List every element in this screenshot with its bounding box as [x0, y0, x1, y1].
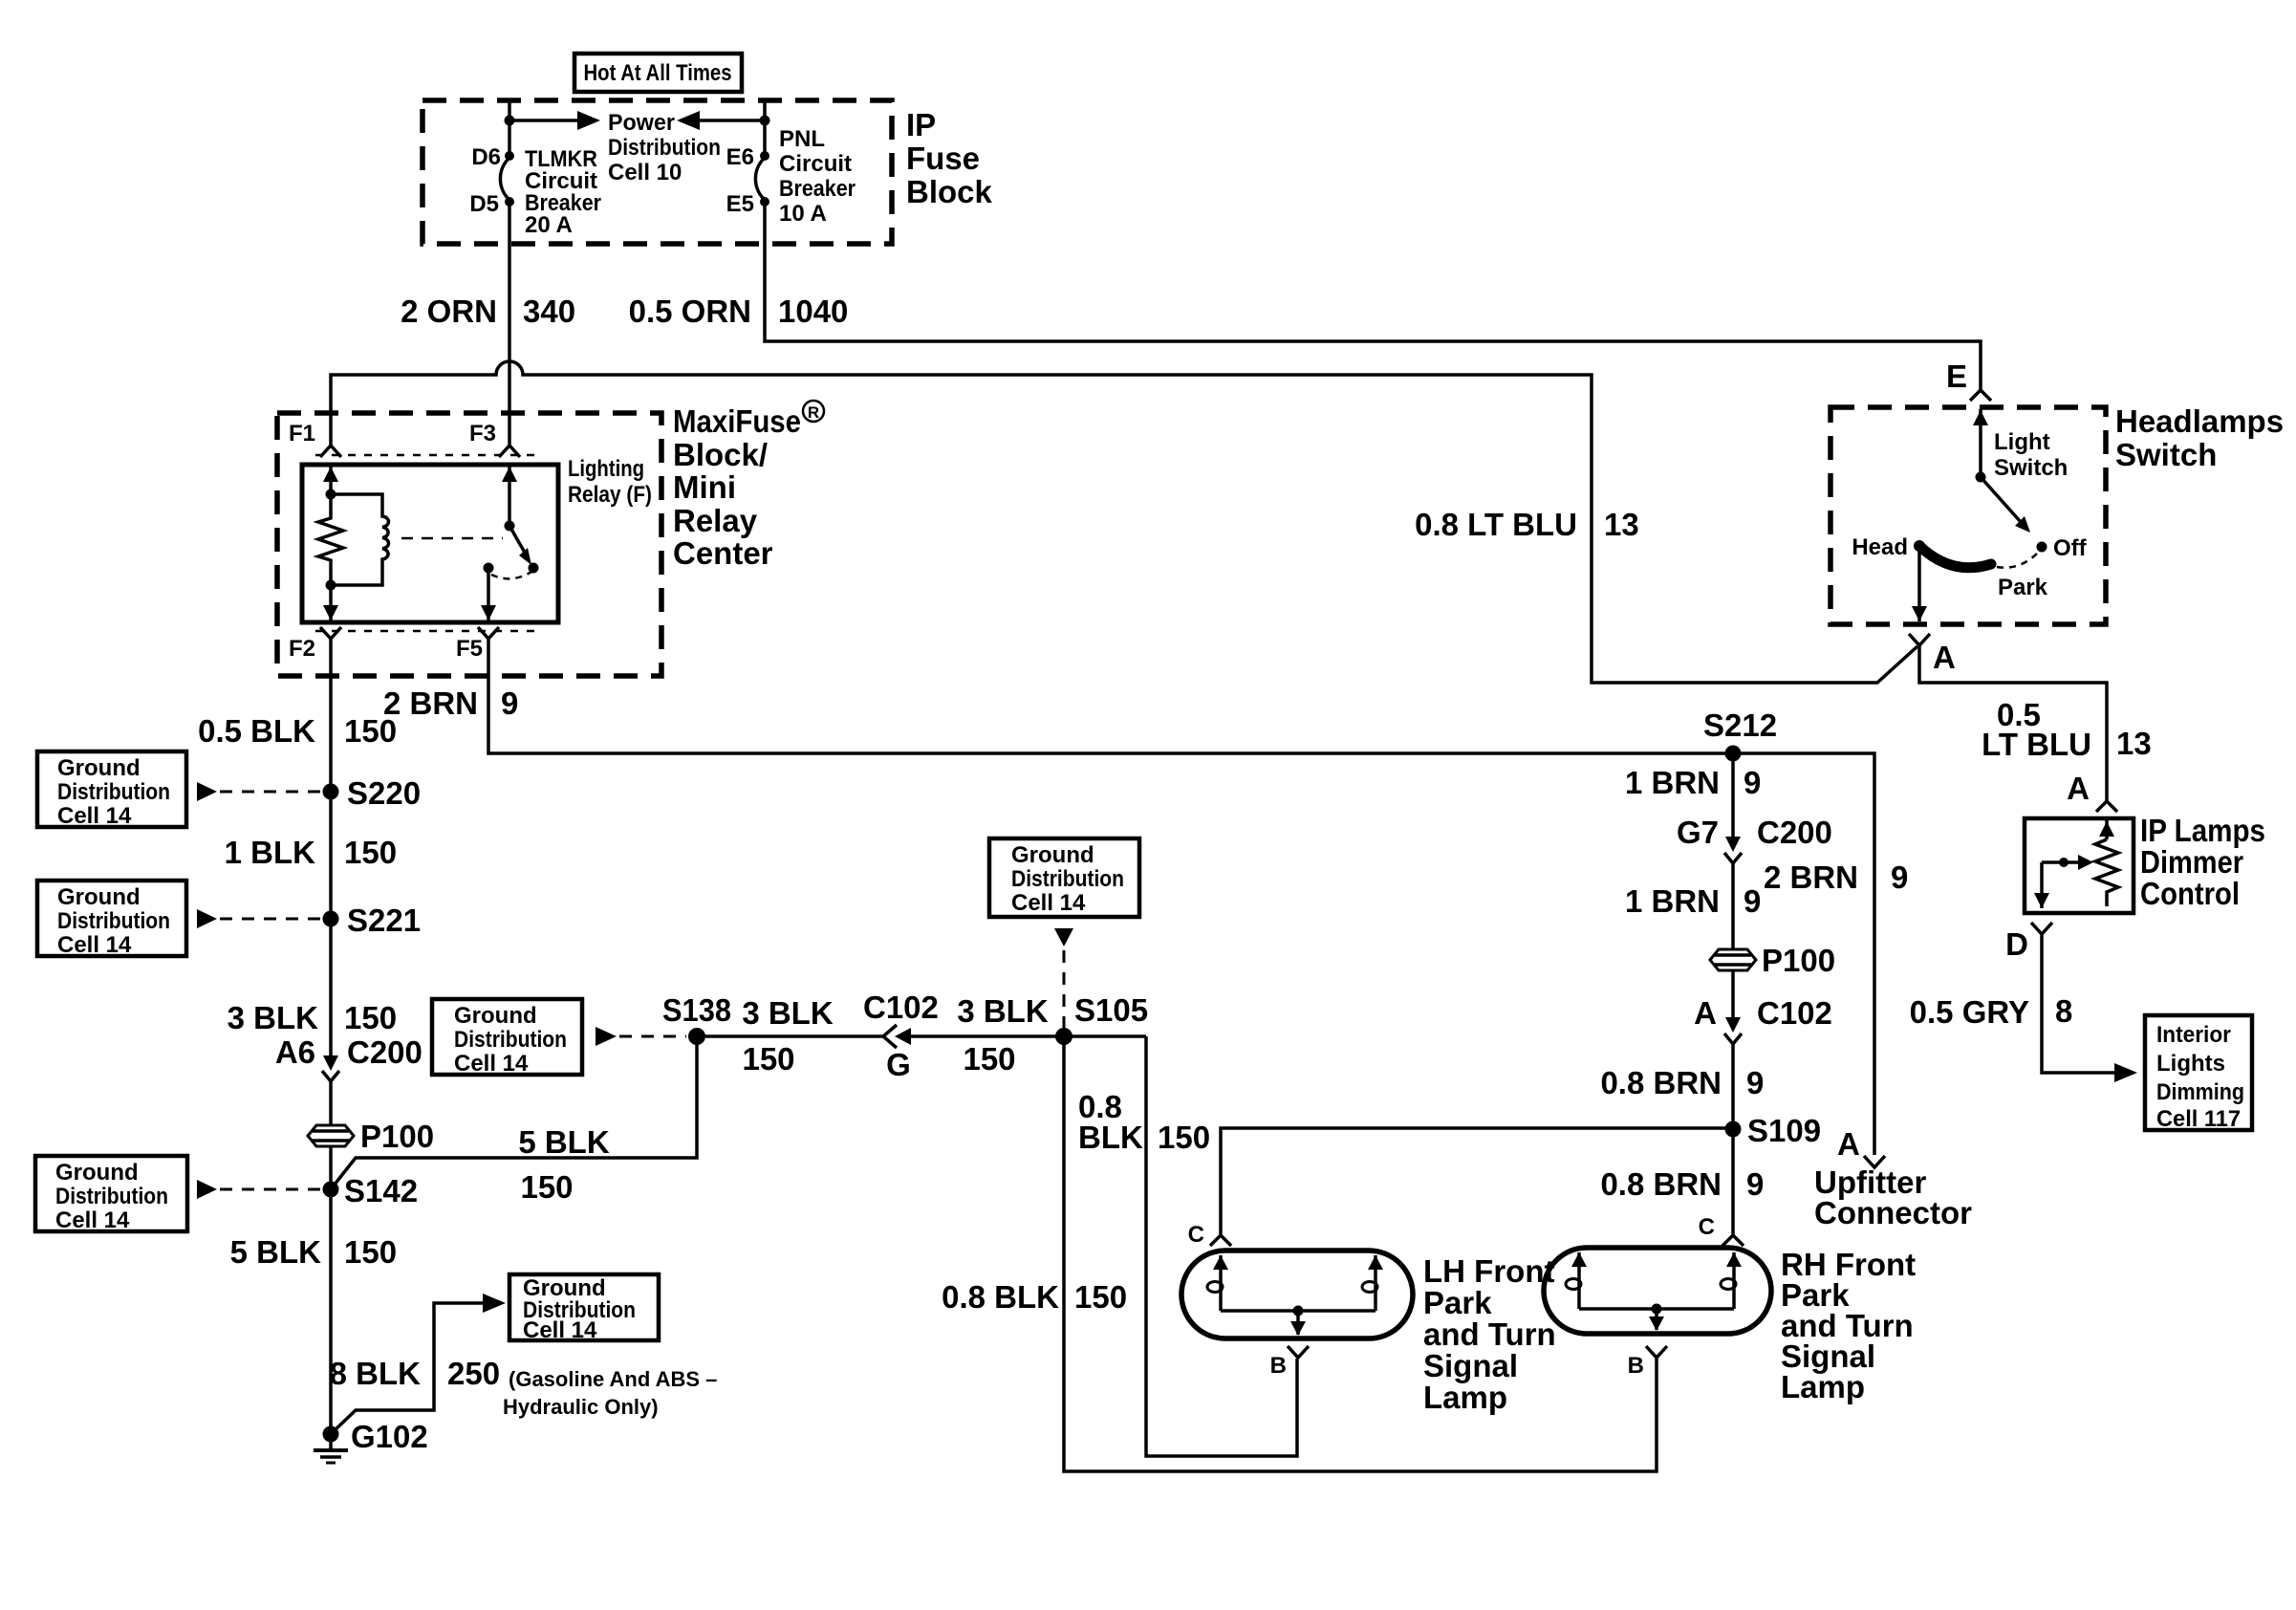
label: 2 BRN | 9 (upfitter wire) [1764, 859, 1908, 895]
node: junction dot on 340 feed [505, 116, 515, 126]
RH lamp terminal C chevron [1699, 1214, 1744, 1246]
svg-text:and Turn: and Turn [1423, 1316, 1556, 1352]
svg-text:3 BLK: 3 BLK [957, 993, 1049, 1029]
label: MaxiFuse (R) Block/ Mini Relay Center [673, 401, 824, 571]
svg-text:9: 9 [1746, 1065, 1764, 1100]
svg-text:Ground: Ground [57, 755, 141, 781]
svg-text:150: 150 [520, 1169, 573, 1205]
svg-text:A: A [1837, 1126, 1860, 1162]
svg-text:B: B [1270, 1353, 1287, 1379]
wiper heavy arc (Head position) [1919, 546, 1991, 568]
svg-text:Cell 14: Cell 14 [1011, 890, 1086, 916]
wire: 3 BLK 150 from C102 to S105 and branch corner [911, 1034, 1146, 1038]
node: junction dot on PNL feed [760, 116, 770, 126]
svg-text:Park: Park [1998, 575, 2048, 600]
svg-text:8: 8 [2055, 993, 2072, 1029]
svg-text:0.8 LT BLU: 0.8 LT BLU [1415, 507, 1577, 542]
svg-text:Hydraulic Only): Hydraulic Only) [503, 1395, 659, 1419]
label: 2 BRN | 9 (at F5) [383, 685, 518, 721]
splice S138 [662, 992, 731, 1045]
svg-text:LT BLU: LT BLU [1982, 727, 2091, 762]
label: 8 BLK | 250 (Gasoline And ABS - Hydraulic Only) [330, 1356, 718, 1419]
svg-text:D6: D6 [471, 144, 501, 170]
svg-text:Circuit: Circuit [779, 151, 852, 177]
svg-text:10 A: 10 A [779, 201, 827, 227]
label: Upfitter Connector [1814, 1164, 1972, 1230]
svg-text:Ground: Ground [57, 884, 141, 910]
label: IP Fuse Block [906, 107, 993, 209]
svg-text:R: R [808, 403, 819, 422]
svg-text:8 BLK: 8 BLK [330, 1356, 422, 1391]
svg-text:Lighting: Lighting [568, 456, 644, 482]
svg-text:150: 150 [344, 713, 397, 749]
wire: 0.8 BLK 150 S105 straight down to RH lamp B return [1064, 1036, 1657, 1471]
relay pin arrow F1 (up) [323, 466, 338, 494]
svg-text:Cell 14: Cell 14 [57, 932, 132, 958]
wire: 0.5 LT BLU 13 from A to dimmer [1919, 645, 2107, 801]
LH lamp filament rail [1221, 1309, 1375, 1313]
svg-text:Switch: Switch [1994, 455, 2068, 481]
splice S142 [323, 1173, 419, 1208]
resistor (relay) [318, 494, 343, 585]
svg-text:150: 150 [963, 1041, 1015, 1077]
wire: 340 feed from fuse block top to D6 [508, 100, 511, 156]
label: 0.8 BLK | 150 (lower) [942, 1279, 1127, 1315]
grommet P100 (left) [308, 1119, 434, 1154]
relay pin arrow F2 (down) [323, 585, 338, 621]
LH lamp terminal C chevron [1188, 1222, 1231, 1248]
svg-text:9: 9 [1746, 1166, 1764, 1202]
svg-text:E5: E5 [726, 191, 754, 217]
svg-text:Mini: Mini [673, 469, 736, 505]
svg-text:0.5 ORN: 0.5 ORN [629, 294, 751, 329]
label: 3 BLK | 150 [227, 1000, 397, 1035]
svg-text:Block: Block [906, 174, 993, 209]
svg-text:Switch: Switch [2115, 437, 2217, 472]
wire: 3 BLK 150 from S138 to C102 [697, 1034, 883, 1038]
svg-text:Fuse: Fuse [906, 141, 980, 176]
svg-text:Relay: Relay [673, 503, 758, 538]
wire: C200 down to P100 [1731, 863, 1735, 1020]
label: 0.5 ORN | 1040 [629, 294, 849, 329]
label: 0.5 / LT BLU | 13 [1982, 697, 2152, 762]
label: PNL Circuit Breaker 10 A [779, 126, 856, 227]
svg-text:150: 150 [344, 1234, 397, 1270]
svg-text:F3: F3 [469, 421, 496, 446]
LH Front Park and Turn Signal Lamp (stadium) [1181, 1251, 1413, 1338]
svg-text:LH Front: LH Front [1423, 1253, 1554, 1289]
svg-text:Park: Park [1423, 1285, 1492, 1320]
label: 1 BRN | 9 (upper) [1625, 765, 1761, 800]
svg-text:B: B [1628, 1353, 1644, 1379]
svg-text:IP Lamps: IP Lamps [2140, 813, 2265, 848]
svg-text:Ground: Ground [55, 1160, 139, 1186]
svg-text:A: A [1933, 640, 1956, 675]
contact Off [2037, 535, 2088, 561]
svg-text:Cell 14: Cell 14 [57, 803, 132, 829]
svg-text:Center: Center [673, 535, 773, 571]
relay switch arm with arrowhead [509, 526, 539, 574]
relay pin arrow F3 (up) [502, 466, 517, 526]
svg-text:0.8 BLK: 0.8 BLK [942, 1279, 1059, 1315]
svg-text:G7: G7 [1677, 815, 1719, 850]
RH lamp common node [1652, 1304, 1662, 1315]
svg-text:C200: C200 [347, 1034, 422, 1070]
svg-text:Block/: Block/ [673, 437, 768, 472]
svg-text:S138: S138 [662, 992, 731, 1028]
circuit breaker PNL arc E6-E5 [755, 158, 765, 200]
svg-text:0.5 BLK: 0.5 BLK [198, 713, 315, 749]
pin F5 chevron [456, 627, 499, 662]
svg-text:Breaker: Breaker [779, 176, 856, 202]
RH lamp terminal B chevron [1628, 1346, 1667, 1379]
svg-text:3 BLK: 3 BLK [227, 1000, 319, 1035]
relay switch pivot [505, 521, 515, 532]
wire: arrow to Power Distribution (right) [677, 111, 765, 130]
wire: 0.5 GRY 8 from D to interior lights dimming [2042, 934, 2137, 1082]
svg-text:MaxiFuse: MaxiFuse [673, 403, 801, 439]
pin F2 chevron [289, 627, 341, 662]
svg-text:Light: Light [1994, 429, 2050, 455]
svg-text:G: G [886, 1047, 911, 1082]
svg-text:Headlamps: Headlamps [2115, 403, 2284, 439]
label: 0.5 BLK | 150 [198, 713, 397, 749]
svg-text:5 BLK: 5 BLK [230, 1234, 322, 1270]
RH lamp right filament [1721, 1252, 1742, 1309]
svg-text:Cell 14: Cell 14 [454, 1051, 529, 1077]
svg-text:Ground: Ground [454, 1003, 537, 1029]
svg-text:Head: Head [1852, 534, 1908, 560]
coil (relay) [331, 494, 389, 585]
label: LH Front Park and Turn Signal Lamp [1423, 1253, 1556, 1415]
wire: 0.5 ORN 1040 from E5 right and up to headlamp switch E [765, 202, 1981, 390]
relay pin arrow F5 (down) [481, 568, 496, 621]
svg-text:150: 150 [1074, 1279, 1127, 1315]
svg-text:PNL: PNL [779, 126, 825, 152]
svg-text:Cell 14: Cell 14 [523, 1317, 597, 1343]
svg-text:S109: S109 [1747, 1113, 1821, 1148]
label: Power Distribution Cell 10 [608, 110, 721, 185]
wire: 5 BLK 150 branch from S142 to S138 [331, 1036, 697, 1189]
splice S212 [1703, 707, 1777, 762]
label: Light Switch [1994, 429, 2068, 481]
svg-text:13: 13 [1604, 507, 1639, 542]
svg-text:1040: 1040 [778, 294, 848, 329]
ground distribution box (S105) [989, 838, 1139, 917]
pin D6 [471, 144, 514, 170]
label: 0.5 GRY | 8 [1910, 993, 2073, 1030]
switch terminal A chevron [1909, 634, 1956, 675]
LH lamp B pin arrow [1290, 1311, 1306, 1336]
relay coil branch node (bottom) [326, 580, 336, 591]
svg-text:Distribution: Distribution [608, 135, 721, 161]
svg-text:Relay (F): Relay (F) [568, 482, 652, 508]
ground G102 [314, 1419, 428, 1463]
wire: right column S212 down to C200 [1731, 753, 1735, 840]
svg-text:F2: F2 [289, 636, 315, 662]
svg-text:150: 150 [344, 835, 397, 870]
svg-text:Distribution: Distribution [57, 779, 170, 805]
LH lamp left filament [1207, 1255, 1228, 1311]
LH lamp terminal B chevron [1270, 1346, 1309, 1379]
svg-text:Power: Power [608, 110, 675, 136]
svg-text:2 BRN: 2 BRN [383, 685, 478, 721]
svg-text:1 BLK: 1 BLK [225, 835, 316, 870]
svg-text:Distribution: Distribution [1011, 866, 1124, 892]
contact Head [1852, 534, 1925, 560]
svg-text:150: 150 [344, 1000, 397, 1035]
dashed arrow to S220 [197, 782, 322, 801]
svg-text:Lights: Lights [2156, 1051, 2225, 1077]
connector C200 terminal A6 (inline arrow+chevron) [275, 1034, 422, 1081]
svg-text:Cell 10: Cell 10 [608, 160, 682, 185]
splice S109 [1725, 1113, 1822, 1148]
svg-text:Dimming: Dimming [2156, 1079, 2244, 1105]
svg-text:P100: P100 [360, 1119, 434, 1154]
svg-text:150: 150 [742, 1041, 794, 1077]
svg-text:20 A: 20 A [525, 212, 573, 238]
svg-text:Distribution: Distribution [55, 1184, 168, 1209]
svg-text:IP: IP [906, 107, 936, 142]
circuit breaker TLMKR arc D6-D5 [500, 158, 509, 200]
svg-text:Hot At All Times: Hot At All Times [584, 60, 732, 86]
connector C102 terminal A (inline arrow+chevron) [1694, 995, 1832, 1044]
ground distribution box (S221) [37, 881, 186, 958]
svg-text:E6: E6 [726, 144, 754, 170]
svg-text:Connector: Connector [1814, 1195, 1972, 1230]
dashed drop arrow from box to S105 [1054, 928, 1073, 1028]
pin F3 chevron [469, 421, 520, 457]
wire: 2 ORN 340 from D5 down to F3 terminal [508, 202, 511, 446]
svg-text:S221: S221 [347, 903, 421, 938]
svg-text:Distribution: Distribution [454, 1027, 567, 1053]
LH lamp common node [1293, 1306, 1304, 1316]
dimmer wiper arrow [2042, 855, 2093, 870]
IP Fuse Block dashed box [422, 100, 892, 244]
svg-text:Lamp: Lamp [1781, 1369, 1865, 1404]
label: 3 BLK / 150 (right of C102) [957, 993, 1049, 1077]
label: 5 BLK / 150 (branch) [518, 1124, 610, 1205]
svg-text:340: 340 [523, 294, 575, 329]
label: 1 BRN | 9 (lower) [1625, 883, 1761, 919]
light switch arm with arrowhead [1981, 477, 2030, 533]
Interior Lights Dimming Cell 117 box [2145, 1015, 2252, 1132]
svg-text:0.8 BRN: 0.8 BRN [1600, 1065, 1722, 1100]
relay common contact node [484, 563, 494, 574]
grommet P100 (right) [1710, 943, 1835, 978]
label box: Hot At All Times [574, 54, 742, 92]
svg-text:150: 150 [1158, 1120, 1210, 1155]
relay alternate contact (dashed arc) [491, 572, 531, 578]
svg-text:D: D [2005, 926, 2028, 962]
switch pin E arrow (up) [1973, 409, 1988, 477]
label: 0.8 / BLK | 150 (upper) [1078, 1089, 1210, 1155]
svg-text:A: A [2067, 771, 2090, 806]
label: 3 BLK / 150 (left of C102) [742, 995, 834, 1077]
pin E5 [726, 191, 769, 217]
wire: left ground chain from F2 down to G102 [329, 639, 333, 1434]
svg-text:C102: C102 [1757, 995, 1832, 1031]
svg-text:S105: S105 [1074, 992, 1148, 1028]
RH lamp B pin arrow [1649, 1309, 1664, 1331]
label: Lighting Relay (F) [568, 456, 652, 508]
wiper alternate dashed arc to Off [1997, 553, 2038, 568]
svg-text:5 BLK: 5 BLK [518, 1124, 610, 1160]
svg-text:A6: A6 [275, 1034, 315, 1070]
dimmer terminal A chevron [2067, 771, 2117, 812]
svg-text:F1: F1 [289, 421, 315, 446]
svg-text:Control: Control [2140, 876, 2240, 911]
svg-text:1 BRN: 1 BRN [1625, 883, 1720, 919]
svg-text:C102: C102 [863, 990, 939, 1025]
IP Lamps Dimmer Control box [2025, 818, 2134, 913]
svg-text:S142: S142 [344, 1173, 418, 1208]
wire: PNL feed from fuse block top to E6 [763, 100, 767, 156]
ground distribution box (S220) [37, 751, 186, 829]
ground distribution box (G102 branch) [509, 1274, 659, 1343]
svg-text:S220: S220 [347, 775, 421, 811]
svg-text:BLK: BLK [1078, 1120, 1143, 1155]
pin F1 chevron [289, 421, 341, 457]
RH Front Park and Turn Signal Lamp (stadium) [1544, 1248, 1771, 1334]
switch pin A arrow (down) from Head [1912, 546, 1927, 621]
relay mechanical linkage (dashed) [401, 537, 503, 540]
MaxiFuse Block dashed box [277, 413, 661, 676]
svg-text:Cell 117: Cell 117 [2156, 1106, 2241, 1132]
svg-text:9: 9 [1891, 859, 1908, 895]
svg-text:G102: G102 [351, 1419, 428, 1454]
splice S221 [323, 903, 422, 938]
svg-text:9: 9 [501, 685, 518, 721]
wire: 0.8 BRN 150 from LH lamp C up and right to S109 [1221, 1128, 1733, 1235]
svg-text:E: E [1946, 359, 1967, 394]
dashed arrow to S221 [197, 909, 322, 928]
wire: 0.8 LT BLU 13 from relay F1 to headlamp switch A (with hop over 340) [331, 361, 1917, 683]
RH lamp filament rail [1579, 1307, 1734, 1311]
svg-text:Lamp: Lamp [1423, 1380, 1507, 1415]
ground distribution box (S138) [432, 999, 582, 1077]
RH lamp left filament [1566, 1252, 1587, 1309]
svg-text:9: 9 [1744, 765, 1761, 800]
upfitter connector terminal A chevron [1837, 1126, 1885, 1167]
wire: 0.8 BLK 150 S105 right branch down to LH lamp B return [1146, 1036, 1297, 1456]
svg-text:9: 9 [1744, 883, 1761, 919]
svg-text:D5: D5 [469, 191, 499, 217]
svg-text:Dimmer: Dimmer [2140, 844, 2243, 880]
relay coil branch node (top) [326, 490, 336, 500]
svg-text:C200: C200 [1757, 815, 1832, 850]
label: 2 ORN | 340 [401, 294, 575, 329]
label: IP Lamps Dimmer Control [2140, 813, 2265, 911]
svg-text:3 BLK: 3 BLK [742, 995, 834, 1031]
label: TLMKR Circuit Breaker 20 A [525, 146, 601, 238]
svg-text:Ground: Ground [1011, 842, 1094, 868]
svg-text:2 ORN: 2 ORN [401, 294, 497, 329]
wire: C102 down to S109 [1731, 1044, 1735, 1235]
ground distribution box (S142) [35, 1156, 187, 1233]
light switch pivot [1976, 472, 1986, 483]
label: 0.8 BRN | 9 (below S109) [1600, 1166, 1764, 1202]
svg-text:P100: P100 [1762, 943, 1835, 978]
label: Headlamps Switch [2115, 403, 2284, 472]
connector C200 terminal G7 (inline arrow+chevron) [1677, 815, 1832, 863]
relay box: Lighting Relay (F) [302, 465, 558, 622]
svg-text:2 BRN: 2 BRN [1764, 859, 1858, 895]
connector face dashed line (bottom of relay) [315, 630, 535, 633]
svg-text:250: 250 [447, 1356, 500, 1391]
splice S220 [323, 775, 422, 811]
svg-text:Interior: Interior [2156, 1022, 2231, 1048]
Headlamps Switch dashed box [1830, 407, 2106, 624]
dashed arrow to S142 [197, 1180, 322, 1199]
svg-text:Signal: Signal [1423, 1348, 1518, 1383]
label: 0.8 LT BLU | 13 [1415, 507, 1639, 542]
svg-text:13: 13 [2116, 726, 2152, 761]
svg-text:Off: Off [2053, 535, 2088, 561]
svg-text:C: C [1188, 1222, 1204, 1248]
pin E6 [726, 144, 769, 170]
svg-text:(Gasoline And ABS –: (Gasoline And ABS – [509, 1367, 717, 1391]
label: RH Front Park and Turn Signal Lamp [1781, 1247, 1916, 1404]
svg-text:F5: F5 [456, 636, 483, 662]
svg-text:Cell 14: Cell 14 [55, 1207, 130, 1233]
wire: 8 BLK 250 branch to ground dist box [331, 1294, 506, 1434]
dimmer terminal D chevron [2005, 923, 2052, 962]
label: 0.8 BRN | 9 (above S109) [1600, 1065, 1764, 1100]
pin D5 [469, 191, 514, 217]
dimmer pin A arrow (up) + rheostat [2095, 819, 2118, 906]
label: 5 BLK | 150 (main) [230, 1234, 397, 1270]
splice S105 [1055, 992, 1148, 1045]
dashed arrow to S138 [596, 1027, 686, 1046]
svg-text:S212: S212 [1703, 707, 1777, 743]
LH lamp right filament [1362, 1255, 1383, 1311]
svg-text:1 BRN: 1 BRN [1625, 765, 1720, 800]
svg-text:0.5 GRY: 0.5 GRY [1910, 994, 2029, 1030]
headlamp switch terminal E chevron [1946, 359, 1991, 401]
connector face dashed line (top of relay) [315, 454, 535, 457]
wire: 2 BRN 9 from F5 down then right to S212 and to upfitter branch [488, 639, 1874, 1155]
svg-text:C: C [1699, 1214, 1715, 1240]
svg-text:A: A [1694, 995, 1717, 1031]
connector C102 terminal G (inline, horizontal) [863, 990, 939, 1082]
wire: arrow to Power Distribution (left) [509, 111, 600, 130]
svg-text:Distribution: Distribution [57, 908, 170, 934]
svg-text:0.8 BRN: 0.8 BRN [1600, 1166, 1722, 1202]
dimmer pin D arrow (down) [2034, 862, 2049, 908]
label: 1 BLK | 150 [225, 835, 397, 870]
